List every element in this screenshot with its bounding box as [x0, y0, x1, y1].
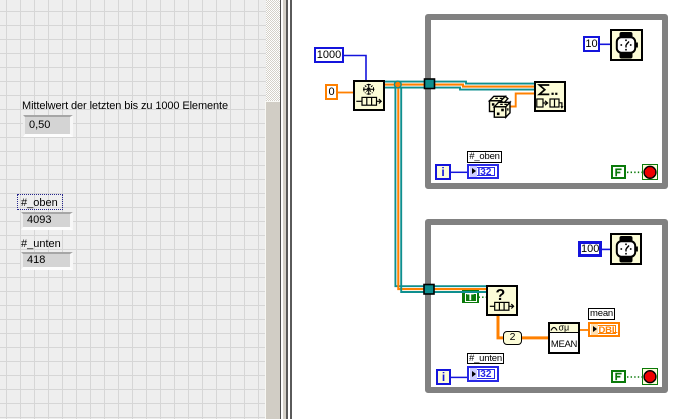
sum node: [534, 81, 566, 112]
stop button 1: [642, 164, 658, 180]
DBL indicator: [588, 322, 620, 337]
scrollbar thumb: [265, 101, 280, 419]
window frame strips: [280, 0, 281, 419]
T constant: [462, 290, 479, 303]
numeric constant 100: [578, 241, 602, 257]
F constant 2: [611, 370, 626, 383]
wire i to I32 (loop2): [451, 376, 467, 378]
label #_unten: [21, 238, 61, 250]
numeric constant 2 (rounded): [503, 331, 522, 345]
F glyphs: [615, 169, 621, 381]
stop octagon 1: [644, 167, 656, 179]
node A: queue create (snowflake): [353, 80, 385, 111]
? node: queue flush: [486, 285, 518, 316]
label #_unten (diagram): [467, 353, 504, 364]
I32 indicator 2: [467, 366, 499, 382]
T constant glyph: [467, 294, 474, 301]
wire 10 to timer1: [600, 43, 610, 45]
sum node glyphs: [539, 85, 549, 94]
dotted wire F to stop (loop2): [627, 376, 642, 378]
node A snowflake glyph: [363, 84, 374, 95]
thick orange wire ? node to MEAN (through const 2): [498, 316, 548, 338]
dotted wire F to stop (loop1): [627, 171, 642, 173]
wire i to I32 (loop1): [451, 171, 467, 173]
watch icon timer2: [617, 236, 638, 263]
MEAN node: [548, 322, 580, 354]
label mean: [588, 308, 615, 320]
label #_oben with selection dots: [17, 194, 63, 210]
node A queue glyph: [356, 97, 381, 105]
tunnel on loop2: [424, 285, 434, 295]
wait timer 1: [610, 29, 643, 61]
front panel grid background: [0, 0, 266, 419]
numeric constant 0: [325, 84, 338, 100]
numeric indicator 0,50: [23, 115, 73, 137]
junction dot: [394, 81, 401, 88]
numeric indicator 4093: [21, 212, 73, 230]
scrollbar track (dither): [266, 0, 281, 101]
i terminal 2: [436, 369, 451, 385]
stop button 2: [642, 368, 658, 385]
numeric constant 10: [583, 36, 600, 52]
dice icon: [490, 96, 511, 117]
i terminal 1: [435, 164, 451, 180]
while loop 1 (top): [425, 14, 668, 189]
MEAN node top glyphs: [551, 328, 557, 331]
wait timer 2: [610, 233, 642, 265]
svg-text:σμ: σμ: [559, 323, 570, 333]
dotted wire T to ? node: [479, 296, 487, 298]
bundle wire: node A to sum node (teal/orange/teal with jog): [385, 82, 534, 90]
F constant 1: [611, 165, 626, 179]
while loop 2 (bottom): [425, 219, 668, 393]
wire 0 to node A: [338, 92, 353, 94]
caption text: [22, 100, 228, 112]
stop octagon 2: [644, 371, 656, 383]
label #_oben (diagram): [467, 151, 502, 163]
wire dice to sum node: [509, 94, 534, 107]
numeric indicator 418: [21, 252, 73, 270]
bundle wire: vertical branch down to bottom loop and into ? node: [395, 82, 486, 292]
numeric constant 1000: [314, 47, 344, 63]
tunnel on loop1: [425, 79, 435, 89]
I32 indicator 1: [467, 164, 499, 179]
? node queue glyph: [490, 302, 514, 310]
wire 100 to timer2: [602, 248, 610, 250]
wire 1000 to node A: [344, 56, 366, 81]
wire MEAN to DBL: [580, 329, 588, 331]
svg-text:?: ?: [496, 287, 506, 304]
wire over T box: [462, 291, 480, 293]
watch icon timer1: [617, 32, 638, 59]
